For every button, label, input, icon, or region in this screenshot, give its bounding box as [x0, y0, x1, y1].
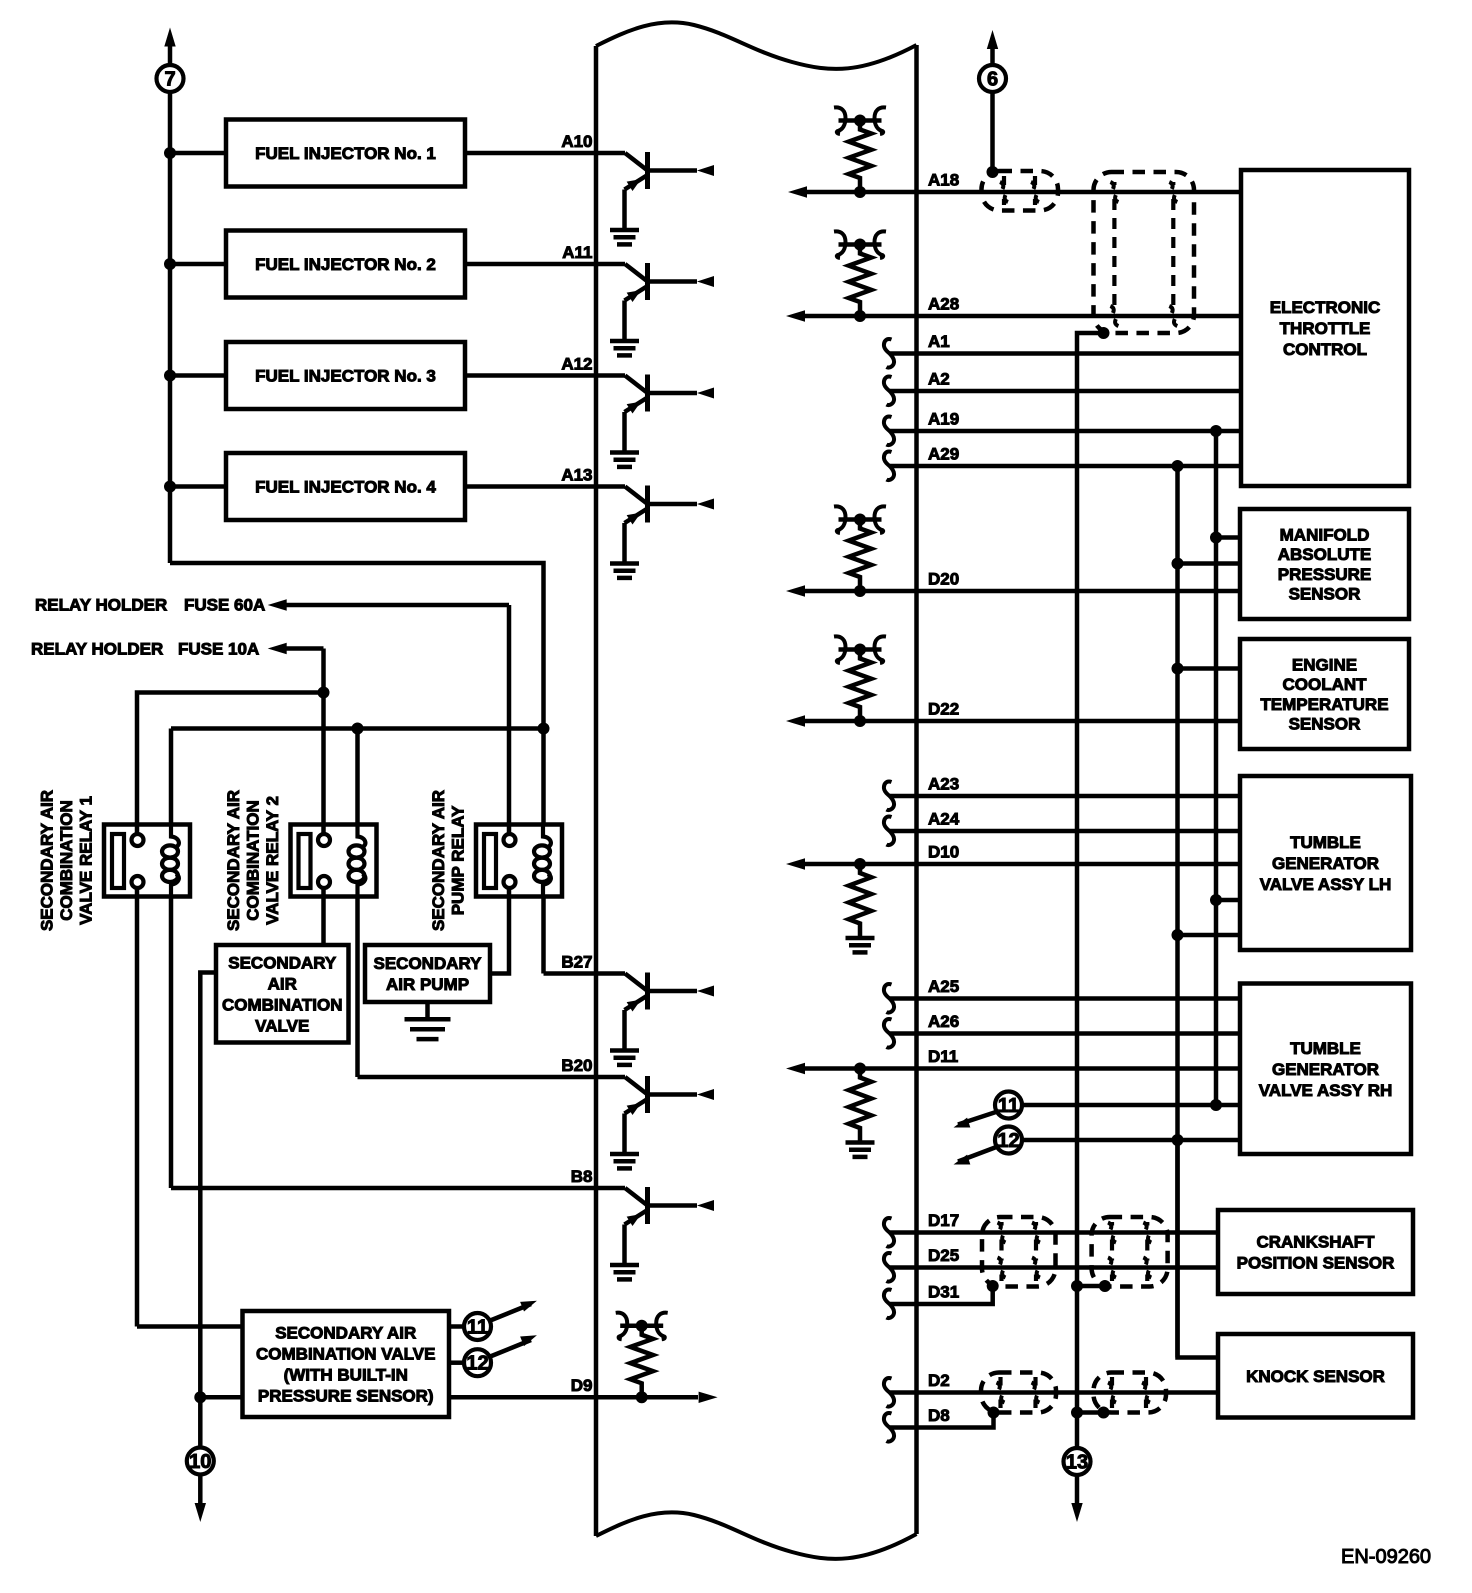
svg-text:MANIFOLD: MANIFOLD [1280, 525, 1370, 544]
svg-text:VALVE RELAY 1: VALVE RELAY 1 [77, 796, 96, 925]
svg-text:SECONDARY: SECONDARY [374, 954, 483, 973]
svg-text:D2: D2 [928, 1371, 950, 1390]
svg-text:D11: D11 [928, 1047, 958, 1066]
svg-text:RELAY HOLDER: RELAY HOLDER [35, 596, 167, 615]
svg-text:VALVE ASSY LH: VALVE ASSY LH [1260, 875, 1392, 894]
svg-text:A26: A26 [928, 1012, 959, 1031]
svg-text:COMBINATION: COMBINATION [57, 800, 76, 921]
svg-text:SECONDARY AIR: SECONDARY AIR [275, 1324, 416, 1343]
svg-text:A11: A11 [562, 243, 592, 262]
svg-text:SECONDARY AIR: SECONDARY AIR [429, 790, 448, 931]
svg-text:VALVE ASSY RH: VALVE ASSY RH [1259, 1081, 1393, 1100]
svg-text:PRESSURE: PRESSURE [1278, 565, 1372, 584]
svg-text:A2: A2 [928, 370, 950, 389]
svg-text:A18: A18 [928, 171, 959, 190]
svg-text:12: 12 [997, 1130, 1019, 1152]
svg-text:CONTROL: CONTROL [1283, 340, 1367, 359]
svg-text:A25: A25 [928, 977, 959, 996]
svg-text:POSITION SENSOR: POSITION SENSOR [1237, 1254, 1395, 1273]
svg-text:D31: D31 [928, 1283, 959, 1302]
svg-text:D22: D22 [928, 700, 959, 719]
svg-text:7: 7 [164, 69, 175, 91]
svg-text:VALVE RELAY 2: VALVE RELAY 2 [263, 796, 282, 925]
svg-text:B8: B8 [571, 1167, 593, 1186]
svg-text:FUSE 60A: FUSE 60A [184, 596, 265, 615]
svg-text:D10: D10 [928, 843, 959, 862]
svg-text:B27: B27 [561, 953, 592, 972]
svg-text:TEMPERATURE: TEMPERATURE [1260, 695, 1388, 714]
svg-text:(WITH BUILT-IN: (WITH BUILT-IN [284, 1366, 408, 1385]
svg-text:SECONDARY: SECONDARY [228, 953, 337, 972]
svg-text:11: 11 [467, 1317, 488, 1339]
svg-text:PUMP RELAY: PUMP RELAY [449, 805, 468, 915]
svg-text:13: 13 [1066, 1452, 1088, 1474]
svg-text:SECONDARY AIR: SECONDARY AIR [38, 790, 57, 931]
svg-text:A23: A23 [928, 775, 959, 794]
svg-text:A29: A29 [928, 445, 959, 464]
svg-text:FUEL INJECTOR No. 4: FUEL INJECTOR No. 4 [255, 478, 436, 497]
svg-text:AIR PUMP: AIR PUMP [386, 975, 469, 994]
svg-text:FUEL INJECTOR No. 2: FUEL INJECTOR No. 2 [255, 255, 436, 274]
svg-text:SENSOR: SENSOR [1289, 715, 1361, 734]
svg-text:ELECTRONIC: ELECTRONIC [1270, 298, 1381, 317]
svg-text:GENERATOR: GENERATOR [1272, 1060, 1379, 1079]
svg-text:6: 6 [987, 69, 998, 91]
svg-text:D20: D20 [928, 570, 959, 589]
svg-text:VALVE: VALVE [255, 1016, 309, 1035]
svg-text:FUSE 10A: FUSE 10A [178, 640, 259, 659]
svg-text:D8: D8 [928, 1406, 950, 1425]
svg-text:A19: A19 [928, 410, 959, 429]
svg-text:D17: D17 [928, 1211, 959, 1230]
svg-text:FUEL INJECTOR No. 3: FUEL INJECTOR No. 3 [255, 367, 436, 386]
svg-text:COMBINATION: COMBINATION [222, 995, 343, 1014]
svg-text:PRESSURE SENSOR): PRESSURE SENSOR) [258, 1387, 434, 1406]
svg-text:11: 11 [998, 1095, 1019, 1117]
svg-text:D9: D9 [571, 1376, 593, 1395]
svg-text:A1: A1 [928, 332, 950, 351]
svg-text:RELAY HOLDER: RELAY HOLDER [31, 640, 163, 659]
svg-text:A12: A12 [561, 355, 592, 374]
svg-text:A28: A28 [928, 295, 959, 314]
svg-text:ABSOLUTE: ABSOLUTE [1278, 545, 1372, 564]
svg-text:COMBINATION VALVE: COMBINATION VALVE [256, 1345, 435, 1364]
svg-text:ENGINE: ENGINE [1292, 655, 1357, 674]
svg-text:CRANKSHAFT: CRANKSHAFT [1256, 1233, 1375, 1252]
svg-text:AIR: AIR [268, 974, 297, 993]
svg-text:12: 12 [466, 1353, 488, 1375]
svg-text:A10: A10 [561, 132, 592, 151]
svg-text:D25: D25 [928, 1246, 959, 1265]
svg-text:FUEL INJECTOR No. 1: FUEL INJECTOR No. 1 [255, 144, 436, 163]
svg-text:10: 10 [189, 1451, 211, 1473]
svg-text:THROTTLE: THROTTLE [1280, 319, 1371, 338]
svg-text:GENERATOR: GENERATOR [1272, 854, 1379, 873]
svg-text:TUMBLE: TUMBLE [1290, 1039, 1361, 1058]
svg-text:EN-09260: EN-09260 [1341, 1546, 1431, 1568]
svg-text:SECONDARY AIR: SECONDARY AIR [224, 790, 243, 931]
svg-text:B20: B20 [561, 1056, 592, 1075]
svg-text:A24: A24 [928, 810, 960, 829]
svg-text:SENSOR: SENSOR [1289, 585, 1361, 604]
svg-text:COMBINATION: COMBINATION [244, 800, 263, 921]
svg-text:TUMBLE: TUMBLE [1290, 833, 1361, 852]
svg-text:A13: A13 [561, 466, 592, 485]
svg-text:COOLANT: COOLANT [1282, 675, 1367, 694]
svg-text:KNOCK SENSOR: KNOCK SENSOR [1246, 1367, 1385, 1386]
